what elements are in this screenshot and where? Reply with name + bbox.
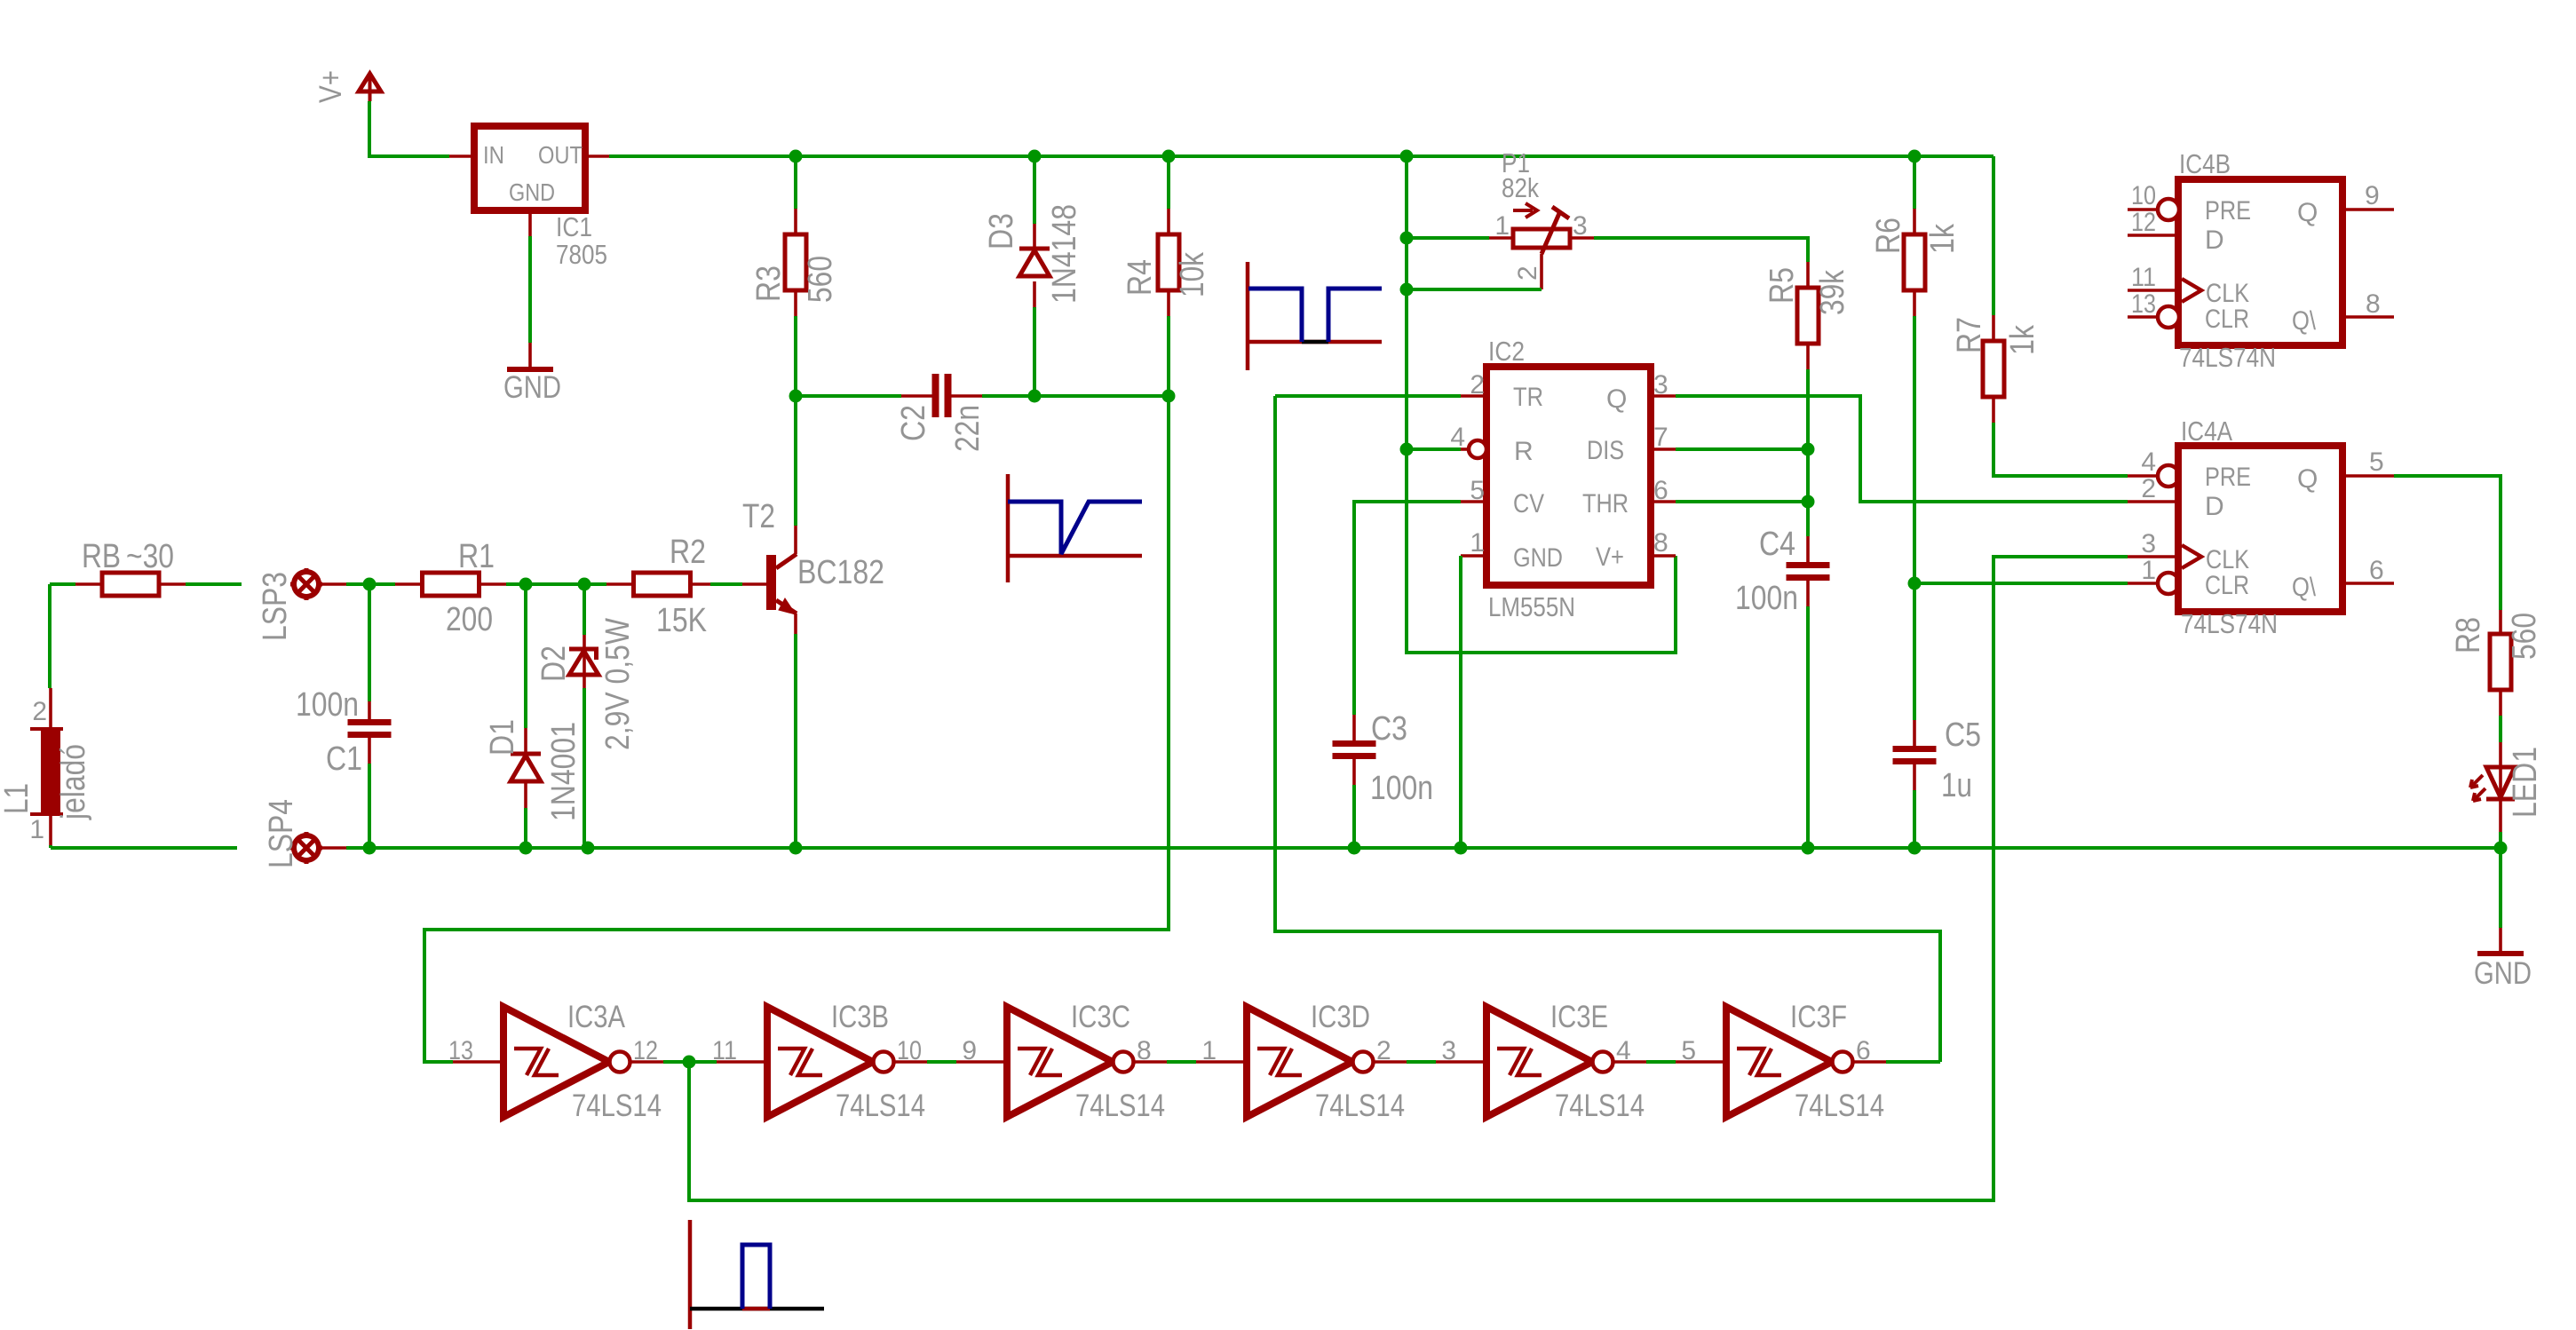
svg-text:IN: IN bbox=[483, 141, 504, 169]
svg-text:12: 12 bbox=[633, 1036, 658, 1065]
flip-flop IC4B box bbox=[2178, 179, 2342, 345]
capacitor C2 bbox=[932, 374, 952, 417]
pin stub IC1 GND bbox=[528, 210, 532, 236]
value 2,9V 0,5W bbox=[599, 618, 637, 750]
pin stub IC2 CV bbox=[1461, 500, 1486, 503]
svg-text:C2: C2 bbox=[895, 405, 932, 441]
svg-text:GND: GND bbox=[509, 178, 555, 206]
svg-text:13: 13 bbox=[448, 1036, 473, 1065]
svg-text:IC3A: IC3A bbox=[567, 1000, 626, 1034]
svg-text:Q\: Q\ bbox=[2292, 573, 2317, 602]
svg-text:C1: C1 bbox=[326, 740, 362, 778]
svg-text:Q\: Q\ bbox=[2292, 306, 2317, 336]
wire top rail corner to R7 bbox=[1992, 156, 1995, 315]
wire CLR node to IC4A CLR bbox=[1914, 582, 2128, 585]
svg-text:R4: R4 bbox=[1122, 259, 1159, 296]
value C1 100n bbox=[296, 686, 359, 724]
pin stub IC1 OUT bbox=[585, 154, 609, 158]
wire IC2 Q to IC4A D bbox=[1676, 396, 2128, 502]
wire IC3D out to IC3E bbox=[1407, 1060, 1436, 1064]
inverter IC3C 74LS14 bbox=[956, 1000, 1167, 1123]
waveform pulse axes bbox=[690, 1220, 824, 1329]
label C4 bbox=[1759, 526, 1795, 563]
node junction R3/top bbox=[789, 150, 803, 163]
pin stub IC2 Q bbox=[1651, 394, 1676, 398]
resistor R6 bbox=[1904, 234, 1925, 290]
svg-text:Q: Q bbox=[1606, 384, 1627, 414]
svg-text:IC3E: IC3E bbox=[1550, 1000, 1608, 1034]
svg-text:1: 1 bbox=[29, 815, 44, 844]
resistor R7 bbox=[1983, 341, 2004, 397]
value 74LS74N B bbox=[2179, 342, 2276, 373]
wire T2 emitter bbox=[794, 634, 797, 848]
pin stub IC4A CLK bbox=[2128, 555, 2178, 558]
wire junction to R1 bbox=[369, 582, 395, 586]
potentiometer P1 wiper bbox=[1542, 207, 1569, 254]
wire L1 to rail bbox=[49, 845, 52, 848]
pin stub R1 right bbox=[480, 582, 506, 586]
svg-text:V+: V+ bbox=[313, 70, 348, 103]
wire TR net bbox=[1275, 394, 1461, 398]
pin stub IC4A PRE with bubble bbox=[2128, 465, 2179, 487]
pin stub RB left bbox=[75, 582, 102, 586]
wire rail to GND2 bbox=[2499, 848, 2502, 928]
pin stub R4 bottom bbox=[1167, 290, 1170, 316]
ground GND bottom right bbox=[2474, 954, 2532, 991]
label D2 bbox=[535, 645, 573, 682]
svg-text:8: 8 bbox=[1137, 1036, 1152, 1065]
pin stub IC2 DIS bbox=[1651, 447, 1676, 451]
svg-text:R2: R2 bbox=[670, 534, 706, 571]
wire R6 to CLR node bbox=[1913, 316, 1916, 583]
svg-text:100n: 100n bbox=[1735, 580, 1798, 617]
waveform ramp trace bbox=[1008, 502, 1142, 554]
node junction IC2 R pin bbox=[1400, 443, 1414, 456]
svg-text:5: 5 bbox=[2369, 447, 2384, 477]
wire D1 to D2 node bbox=[526, 582, 584, 586]
svg-text:CLR: CLR bbox=[2205, 305, 2249, 334]
label IC4B bbox=[2179, 148, 2231, 179]
svg-text:L1: L1 bbox=[0, 783, 36, 814]
svg-text:9: 9 bbox=[962, 1036, 977, 1065]
wire IC4A Q to R8 bbox=[2394, 476, 2501, 610]
wire IC3A out to IC4A CLK bbox=[689, 557, 2128, 1200]
pin stub IC4B Q bbox=[2342, 208, 2394, 211]
terminal LSP3 bbox=[290, 568, 322, 600]
wire supply to P1 pin1 bbox=[1407, 236, 1489, 240]
svg-text:1u: 1u bbox=[1941, 767, 1972, 804]
pin stub P1 pin1 bbox=[1489, 236, 1513, 240]
svg-text:C4: C4 bbox=[1759, 526, 1795, 563]
node junction D1/row bbox=[519, 578, 533, 591]
svg-text:3: 3 bbox=[2141, 529, 2156, 558]
node junction D2/row bbox=[578, 578, 591, 591]
wire D3 bottom bbox=[1033, 307, 1036, 396]
pin number P1-2 bbox=[1513, 265, 1542, 281]
pin stub IC4B Qbar bbox=[2342, 315, 2394, 319]
pin stub IC2 V+ bbox=[1651, 554, 1676, 558]
svg-text:8: 8 bbox=[2366, 289, 2381, 319]
node junction C4/rail bbox=[1802, 842, 1815, 855]
svg-text:LSP3: LSP3 bbox=[257, 572, 294, 641]
pin number IC4A-6 bbox=[2369, 556, 2384, 585]
node junction DIS/R5 bbox=[1802, 443, 1815, 456]
svg-text:D3: D3 bbox=[983, 213, 1020, 249]
resistor R5 bbox=[1797, 288, 1819, 344]
svg-text:1k: 1k bbox=[1924, 223, 1962, 254]
svg-text:LED1: LED1 bbox=[2507, 747, 2544, 818]
svg-text:7: 7 bbox=[1653, 423, 1668, 452]
value C5 1u bbox=[1941, 767, 1972, 804]
pin stub IC2 TR bbox=[1461, 394, 1486, 398]
wire R1 node to C1 bbox=[368, 584, 371, 701]
pin stub C1 bottom bbox=[368, 738, 371, 764]
pin number IC4A-1 bbox=[2141, 556, 2156, 585]
pin stub P1 pin2 bbox=[1540, 254, 1543, 289]
pin stub P1 pin3 bbox=[1570, 236, 1594, 240]
svg-text:CLR: CLR bbox=[2205, 571, 2249, 600]
pin stub IC4B PRE with bubble bbox=[2128, 199, 2179, 220]
svg-text:IC4A: IC4A bbox=[2181, 416, 2232, 447]
led LED1 bbox=[2470, 767, 2515, 832]
pin stub R2 left bbox=[606, 582, 633, 586]
pin number IC2-4 bbox=[1450, 423, 1465, 452]
svg-text:~30: ~30 bbox=[126, 538, 174, 575]
svg-text:74LS14: 74LS14 bbox=[1795, 1089, 1884, 1123]
svg-text:1: 1 bbox=[1470, 528, 1485, 558]
pin stub R2 right bbox=[691, 582, 710, 586]
pin stub GND1 bbox=[528, 343, 532, 368]
wire bottom rail left bbox=[51, 846, 237, 850]
svg-text:Q: Q bbox=[2297, 464, 2318, 494]
wire CV to C3 bbox=[1354, 502, 1461, 715]
ic IC2 LM555N box bbox=[1486, 367, 1651, 585]
pin stub RB right bbox=[159, 582, 186, 586]
pin stub C2 left bbox=[901, 394, 932, 398]
wire R7 to IC4A PRE bbox=[1993, 423, 2128, 476]
pin number L1-2 bbox=[32, 697, 47, 726]
wire IC3F out to feedback bbox=[1886, 1060, 1940, 1064]
svg-text:9: 9 bbox=[2365, 181, 2380, 210]
svg-text:IC3D: IC3D bbox=[1311, 1000, 1370, 1034]
label IC1 bbox=[556, 211, 592, 242]
svg-text:R3: R3 bbox=[750, 265, 788, 302]
value 15K bbox=[656, 602, 707, 639]
wire R5 to DIS node bbox=[1806, 369, 1810, 449]
svg-text:IC1: IC1 bbox=[556, 211, 592, 242]
flip-flop IC4A box bbox=[2178, 446, 2342, 612]
label IC2 bbox=[1488, 336, 1525, 367]
node junction R4/top bbox=[1162, 150, 1176, 163]
svg-text:D: D bbox=[2205, 226, 2224, 255]
pin stub C3 bottom bbox=[1352, 759, 1356, 785]
pin stub IC4A CLR with bubble bbox=[2128, 573, 2179, 594]
pin stub LSP3 bbox=[321, 582, 346, 586]
wire IC3A out to junction bbox=[663, 1060, 717, 1064]
label L1 bbox=[0, 783, 36, 814]
svg-text:5: 5 bbox=[1681, 1036, 1696, 1065]
capacitor C4 bbox=[1787, 562, 1830, 581]
pin number IC2-1 bbox=[1470, 528, 1485, 558]
svg-text:1: 1 bbox=[1494, 211, 1510, 241]
pin number IC2-3 bbox=[1653, 370, 1668, 400]
svg-text:BC182: BC182 bbox=[797, 554, 884, 591]
wire R pin to supply bbox=[1407, 447, 1461, 451]
svg-text:10: 10 bbox=[897, 1036, 922, 1065]
value 200 bbox=[446, 601, 493, 638]
pin stub R7 top bbox=[1992, 315, 1995, 341]
pin stub IC4B D bbox=[2128, 234, 2178, 237]
svg-text:74LS14: 74LS14 bbox=[836, 1089, 925, 1123]
svg-text:13: 13 bbox=[2131, 289, 2156, 319]
wire P1 pin3 to R5 bbox=[1594, 238, 1808, 262]
pin stub R6 bottom bbox=[1913, 290, 1916, 316]
pin stub C4 bottom bbox=[1806, 581, 1810, 606]
svg-text:100n: 100n bbox=[296, 686, 359, 724]
wire C5 to rail bbox=[1913, 790, 1916, 848]
waveform inverted pulse trace bbox=[1248, 289, 1382, 342]
svg-text:OUT: OUT bbox=[538, 141, 583, 169]
wire THR to C4 bbox=[1676, 500, 1808, 503]
label D1 bbox=[484, 719, 521, 756]
diode D3 1N4148 bbox=[1019, 249, 1050, 276]
pin number IC4B-10 bbox=[2131, 181, 2156, 210]
svg-text:74LS14: 74LS14 bbox=[1075, 1089, 1165, 1123]
svg-text:74LS14: 74LS14 bbox=[1555, 1089, 1645, 1123]
wire THR node to C4 bbox=[1806, 502, 1810, 536]
svg-text:R7: R7 bbox=[1951, 317, 1988, 353]
svg-text:74LS74N: 74LS74N bbox=[2179, 342, 2276, 373]
label R3 bbox=[750, 265, 788, 302]
pin stub C5 top bbox=[1913, 720, 1916, 746]
pin number IC4A-2 bbox=[2141, 474, 2156, 503]
diode D2 zener bbox=[569, 649, 598, 675]
svg-text:82k: 82k bbox=[1502, 172, 1539, 203]
pin stub LED top bbox=[2499, 742, 2502, 767]
wire IC2 GND down bbox=[1459, 556, 1462, 848]
resistor R3 bbox=[785, 234, 806, 290]
svg-text:IC3C: IC3C bbox=[1071, 1000, 1130, 1034]
label C1 bbox=[326, 740, 362, 778]
value 1N4148 bbox=[1046, 204, 1083, 304]
resistor R1 bbox=[423, 573, 480, 596]
value 1N4001 bbox=[545, 722, 583, 821]
pin stub C1 top bbox=[368, 701, 371, 719]
ground GND under IC1 bbox=[503, 369, 561, 405]
svg-text:1k: 1k bbox=[2004, 324, 2041, 355]
node junction C1/R1 row bbox=[363, 578, 376, 591]
pin stub IC4A Qbar bbox=[2342, 582, 2394, 585]
pin stub IC2 GND bbox=[1461, 554, 1486, 558]
ic IC1 7805 box bbox=[474, 126, 585, 210]
pin stub R3 bottom bbox=[794, 290, 797, 316]
svg-text:IC3F: IC3F bbox=[1790, 1000, 1847, 1034]
resistor R8 bbox=[2490, 634, 2511, 690]
node junction IC2 GND/rail bbox=[1454, 842, 1468, 855]
potentiometer P1 arrow bbox=[1513, 203, 1537, 218]
wire LSP3 to R1 bbox=[346, 582, 369, 586]
svg-text:10: 10 bbox=[2131, 181, 2156, 210]
node junction C5/rail bbox=[1908, 842, 1922, 855]
label LSP3 bbox=[257, 572, 294, 641]
inductor L1 jeladó bbox=[30, 728, 63, 815]
pin number IC4A-4 bbox=[2141, 447, 2156, 477]
svg-text:11: 11 bbox=[2131, 263, 2156, 292]
waveform inverted pulse axes bbox=[1248, 262, 1382, 370]
pin stub C3 top bbox=[1352, 715, 1356, 740]
text IC2 pin names bbox=[1513, 383, 1629, 573]
svg-text:TR: TR bbox=[1513, 383, 1543, 412]
svg-text:IC2: IC2 bbox=[1488, 336, 1525, 367]
svg-text:39k: 39k bbox=[1814, 269, 1851, 315]
node junction CLR/C5 bbox=[1908, 577, 1922, 590]
svg-text:6: 6 bbox=[2369, 556, 2384, 585]
value 560 bbox=[802, 256, 839, 303]
label R6 bbox=[1870, 218, 1907, 254]
terminal LSP4 bbox=[290, 832, 322, 864]
pin stub R4 top bbox=[1167, 209, 1170, 234]
wire C3 to rail bbox=[1352, 785, 1356, 848]
svg-text:R8: R8 bbox=[2450, 617, 2487, 653]
wire LED to rail bbox=[2499, 832, 2502, 848]
wire T2 collector bbox=[794, 396, 797, 526]
capacitor C3 bbox=[1333, 740, 1376, 759]
label D3 bbox=[983, 213, 1020, 249]
pin stub T2 base bbox=[742, 582, 766, 586]
pin stub IC4B CLR with bubble bbox=[2128, 306, 2179, 328]
svg-text:2: 2 bbox=[1513, 265, 1542, 281]
node junction R4/TR net bbox=[1162, 390, 1176, 403]
svg-text:1: 1 bbox=[2141, 556, 2156, 585]
wire C1 to rail bbox=[368, 764, 371, 848]
value LM555N bbox=[1488, 591, 1575, 622]
value R6 1k bbox=[1924, 223, 1962, 254]
svg-text:10k: 10k bbox=[1174, 251, 1211, 297]
svg-text:DIS: DIS bbox=[1587, 436, 1624, 465]
wire C2 left bbox=[796, 394, 901, 398]
svg-text:CV: CV bbox=[1513, 489, 1544, 519]
inverter IC3D 74LS14 bbox=[1196, 1000, 1407, 1123]
wire D1 node down bbox=[524, 584, 527, 728]
label T2 bbox=[742, 498, 775, 535]
pin number IC4A-3 bbox=[2141, 529, 2156, 558]
wire CLR node to C5 bbox=[1913, 583, 1916, 720]
node junction R6/top bbox=[1908, 150, 1922, 163]
waveform pulse trace bbox=[742, 1245, 770, 1309]
svg-text:D: D bbox=[2205, 492, 2224, 521]
wire R4 to TR node bbox=[1167, 316, 1170, 396]
label R8 bbox=[2450, 617, 2487, 653]
transistor T2 BC182 bbox=[766, 526, 797, 634]
pin stub C4 top bbox=[1806, 536, 1810, 562]
svg-text:RB: RB bbox=[82, 538, 121, 575]
svg-text:22n: 22n bbox=[949, 405, 987, 452]
inverter IC3F 74LS14 bbox=[1676, 1000, 1886, 1123]
inverter IC3B 74LS14 bbox=[712, 1000, 927, 1123]
pin number P1-1 bbox=[1494, 211, 1510, 241]
value 22n bbox=[949, 405, 987, 452]
value 82k bbox=[1502, 172, 1539, 203]
wire RB to L1 bbox=[48, 584, 52, 688]
wire IC3E out to IC3F bbox=[1646, 1060, 1676, 1064]
svg-text:R5: R5 bbox=[1764, 267, 1801, 304]
pin number IC4B-9 bbox=[2365, 181, 2380, 210]
label IC4A bbox=[2181, 416, 2232, 447]
svg-text:4: 4 bbox=[1616, 1036, 1631, 1065]
svg-text:1N4001: 1N4001 bbox=[545, 722, 583, 821]
pin stub C5 bottom bbox=[1913, 764, 1916, 790]
resistor RB bbox=[102, 573, 159, 596]
value 39k bbox=[1814, 269, 1851, 315]
label P1 bbox=[1502, 147, 1530, 178]
wire TR feedback from IC3F bbox=[1275, 396, 1940, 1062]
label C2 bbox=[895, 405, 932, 441]
node junction P1 pin2 bbox=[1400, 283, 1414, 297]
wire IC3C out to IC3D bbox=[1167, 1060, 1196, 1064]
svg-text:4: 4 bbox=[2141, 447, 2156, 477]
svg-text:jeladó: jeladó bbox=[55, 744, 92, 820]
svg-text:6: 6 bbox=[1856, 1036, 1871, 1065]
pin number L1-1 bbox=[29, 815, 44, 844]
node junction P1 pin1 bbox=[1400, 232, 1414, 245]
svg-text:15K: 15K bbox=[656, 602, 707, 639]
wire P1 pin2 to supply bbox=[1407, 288, 1542, 291]
pin stub R8 top bbox=[2499, 610, 2502, 634]
wire TR node to IC3A input bbox=[424, 396, 1169, 1062]
wire V+ to IC1 IN bbox=[369, 101, 449, 156]
node junction C3/rail bbox=[1348, 842, 1361, 855]
pin number IC4B-11 bbox=[2131, 263, 2156, 292]
wire RB right bbox=[186, 582, 242, 586]
label C3 bbox=[1371, 710, 1407, 748]
pin number IC2-5 bbox=[1470, 476, 1485, 505]
pin stub IC4A Q bbox=[2342, 474, 2394, 478]
diode D1 1N4001 bbox=[511, 754, 541, 781]
node junction T2 emitter/rail bbox=[789, 842, 803, 855]
pin number IC2-7 bbox=[1653, 423, 1668, 452]
pin stub R1 left bbox=[395, 582, 422, 586]
label R4 bbox=[1122, 259, 1159, 296]
wire D1 to rail bbox=[524, 808, 527, 848]
wire RB left bbox=[50, 582, 75, 586]
wire R2 to T2 base bbox=[710, 582, 742, 586]
value BC182 bbox=[797, 554, 884, 591]
pin stub D3 bottom bbox=[1033, 281, 1036, 307]
pin stub IC1 IN bbox=[449, 154, 474, 158]
value 10k bbox=[1174, 251, 1211, 297]
capacitor C5 bbox=[1893, 746, 1937, 764]
pin number IC2-8 bbox=[1653, 528, 1668, 558]
wire bottom rail bbox=[346, 846, 2501, 850]
wire top to R3 bbox=[794, 156, 797, 209]
resistor R4 bbox=[1158, 234, 1179, 290]
wire D2 node down bbox=[583, 584, 586, 635]
svg-text:LM555N: LM555N bbox=[1488, 591, 1575, 622]
svg-text:C3: C3 bbox=[1371, 710, 1407, 748]
pin number IC4B-8 bbox=[2366, 289, 2381, 319]
resistor R2 bbox=[634, 573, 691, 596]
wire R1 to D1 node bbox=[506, 582, 526, 586]
wire D2 node to R2 bbox=[584, 582, 606, 586]
pin stub C2 right bbox=[951, 394, 982, 398]
potentiometer P1 body bbox=[1513, 229, 1570, 248]
wire R3 to C2 node bbox=[794, 316, 797, 396]
pin stub R3 top bbox=[794, 209, 797, 234]
pin stub IC2 THR bbox=[1651, 500, 1676, 503]
svg-text:8: 8 bbox=[1653, 528, 1668, 558]
wire IC3B out to IC3C bbox=[927, 1060, 956, 1064]
svg-text:GND: GND bbox=[503, 370, 561, 405]
